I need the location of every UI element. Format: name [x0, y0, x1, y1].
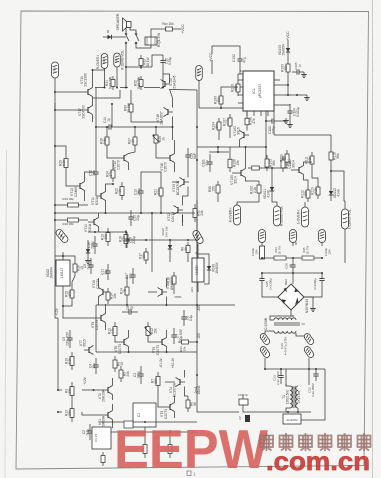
svg-text:220µ: 220µ — [132, 236, 136, 244]
wire x55 gnd run — [55, 262, 58, 318]
wire y95 net — [280, 94, 307, 96]
label VD22 1N4004 — [46, 267, 54, 279]
transistor VT16 C2073 — [160, 154, 175, 172]
wire x96 down — [95, 88, 97, 167]
svg-text:1k: 1k — [118, 189, 122, 193]
svg-text:1k: 1k — [283, 156, 287, 160]
wire to bridge — [262, 273, 322, 297]
wire VT9 — [63, 304, 106, 330]
capacitor C13 100u — [134, 184, 144, 200]
svg-text:6.8k: 6.8k — [68, 358, 72, 365]
svg-text:VPR1: VPR1 — [174, 295, 182, 299]
svg-text:GND: GND — [53, 67, 57, 73]
svg-text:EEPW: EEPW — [114, 418, 268, 478]
resistor R106 15k — [228, 147, 240, 172]
wire L pills — [305, 201, 345, 263]
wire y305 bus — [96, 304, 235, 306]
svg-text:2SA1945: 2SA1945 — [173, 75, 177, 88]
svg-text:22p: 22p — [136, 215, 140, 221]
svg-text:150: 150 — [304, 191, 308, 197]
transistor VT100 9014 — [230, 169, 246, 185]
bus y258 — [261, 257, 323, 259]
svg-text:24k: 24k — [126, 371, 130, 377]
box bottom connector — [133, 403, 156, 427]
ic pins bottom — [246, 111, 268, 120]
svg-text:2.2k: 2.2k — [253, 187, 257, 194]
wire R23/R20 — [54, 204, 88, 221]
transistor VT12 C2073 — [167, 206, 183, 223]
svg-text:56p: 56p — [92, 170, 96, 176]
label SPEAKER — [116, 13, 120, 30]
svg-text:2SK30A: 2SK30A — [102, 415, 106, 428]
svg-text:75: 75 — [123, 289, 127, 293]
svg-text:LM317: LM317 — [60, 268, 64, 278]
wire bus y213 — [54, 212, 195, 214]
svg-text:9015: 9015 — [83, 339, 87, 347]
svg-text:4.7k: 4.7k — [111, 328, 115, 335]
resistor R34 2k7W — [274, 246, 286, 260]
wire C14 row — [96, 117, 174, 141]
capacitor C9 0.1u — [83, 258, 94, 274]
label Rsv 20k — [162, 22, 174, 26]
ground g4 — [310, 306, 316, 312]
resistor R100 10k — [214, 92, 224, 108]
svg-text:2.2n 250V: 2.2n 250V — [311, 383, 315, 397]
wire ac col — [264, 358, 325, 420]
svg-text:R-OVER-I: R-OVER-I — [229, 208, 233, 223]
svg-text:56k: 56k — [336, 153, 340, 159]
potentiometer R12 10k — [145, 322, 158, 340]
ground P2 gnd — [293, 242, 296, 246]
resistor R23 39k — [62, 197, 84, 207]
capacitor C26b 3300u — [313, 273, 325, 290]
svg-text:100: 100 — [170, 277, 174, 283]
resistor R13 4.7k — [108, 322, 118, 340]
wire VT14/16 — [107, 140, 175, 172]
resistor R103 10k — [281, 60, 291, 76]
svg-text:2×13.5m: 2×13.5m — [297, 390, 301, 403]
connector ac2 — [259, 345, 271, 358]
diode VD21 — [85, 244, 91, 264]
label +12V left — [55, 307, 59, 316]
plug AC220V — [283, 414, 301, 424]
wire x330 right — [0, 0, 1, 1]
wire VT10 — [88, 213, 99, 232]
wire switch-row — [125, 44, 152, 88]
resistor R3 20k — [65, 382, 75, 400]
connector ac3 — [0, 0, 1, 1]
svg-text:1µ: 1µ — [130, 306, 134, 310]
svg-text:GND: GND — [197, 70, 201, 76]
wire det left — [197, 146, 277, 206]
capacitor C6 0.1u — [181, 310, 193, 326]
svg-text:0.33µ: 0.33µ — [168, 57, 172, 65]
wire mid cluster — [113, 160, 188, 222]
transistor VT20 2SA1945 — [161, 75, 177, 88]
wire left rail power — [197, 200, 239, 412]
watermark EEPW — [114, 418, 268, 478]
svg-text:0.1µ: 0.1µ — [86, 429, 90, 436]
resistor R31 — [105, 76, 115, 90]
svg-text:56k: 56k — [272, 160, 276, 166]
svg-text:C2073: C2073 — [164, 162, 168, 172]
wire VT11 — [96, 180, 114, 213]
connector ac6 — [303, 345, 315, 358]
capacitor C7 220u — [171, 328, 183, 344]
svg-text:100µ: 100µ — [137, 371, 141, 379]
wire x152 down — [151, 212, 153, 272]
label 2x13.5m — [297, 390, 301, 403]
capacitor C11 — [101, 264, 111, 280]
transformer T1 — [290, 386, 298, 408]
capacitor C10 22p — [128, 210, 140, 226]
capacitor C29 68P — [185, 148, 197, 164]
transistor VT7 9015 — [79, 339, 94, 354]
transistor VT18 2SA1837 — [156, 108, 173, 125]
svg-text:100: 100 — [68, 291, 72, 297]
bus y240 — [126, 239, 198, 241]
svg-text:C2073: C2073 — [156, 345, 160, 355]
svg-text:2.2k: 2.2k — [314, 188, 318, 195]
wire y352 bus — [96, 351, 197, 353]
svg-text:20k: 20k — [68, 410, 72, 416]
resistor R112 150 — [301, 186, 311, 202]
svg-text:BC3570A: BC3570A — [173, 382, 177, 397]
page edge right — [372, 0, 374, 478]
jfet VT1 2SK30A — [98, 411, 113, 429]
label +VCC right — [286, 31, 290, 41]
svg-text:1k: 1k — [131, 139, 135, 143]
svg-text:2SC1380: 2SC1380 — [84, 73, 88, 87]
wire IC right to R116 — [274, 111, 331, 148]
svg-text:0.1µ: 0.1µ — [87, 263, 91, 270]
svg-text:1k: 1k — [184, 247, 188, 251]
zener VD20 — [161, 226, 172, 254]
svg-text:C3469: C3469 — [74, 187, 78, 197]
wire bridge — [291, 297, 313, 316]
svg-text:56: 56 — [193, 402, 197, 406]
transistor VT6 C2073 — [114, 338, 129, 355]
resistor R108 47k — [245, 115, 256, 128]
capacitor C5 220u — [62, 330, 73, 348]
label C26 4x047u — [280, 337, 287, 356]
resistor R14 10k — [106, 288, 117, 304]
svg-text:SPEAKER: SPEAKER — [116, 13, 120, 30]
wire from GND down — [54, 78, 56, 111]
svg-text:4.7k: 4.7k — [226, 119, 230, 126]
connector P2 — [290, 230, 297, 243]
wire bottom ac — [243, 384, 311, 413]
svg-text:4148: 4148 — [267, 190, 271, 198]
ic pins left — [238, 70, 243, 108]
svg-text:R-ZERO-VOL: R-ZERO-VOL — [121, 50, 125, 70]
svg-text:+VCC: +VCC — [286, 31, 290, 41]
svg-text:27k: 27k — [109, 171, 113, 177]
diode D-sp — [103, 35, 116, 39]
resistor R2a — [101, 452, 105, 466]
connector ac1 — [259, 332, 271, 345]
svg-text:+VCC: +VCC — [209, 52, 213, 62]
resistor R102 2.2k — [250, 181, 262, 197]
capacitor C23 — [273, 369, 284, 385]
resistor R2b — [143, 427, 147, 458]
wire C15 — [152, 55, 164, 89]
diode VD101 4148 — [263, 181, 274, 199]
resistor R25 — [59, 154, 69, 172]
svg-text:10k: 10k — [182, 346, 186, 351]
wires speaker to switches — [126, 28, 136, 34]
svg-text:µPC3237: µPC3237 — [258, 84, 262, 98]
resistor R7 56k — [151, 372, 161, 390]
transistor VT13 C3469 — [70, 182, 85, 198]
resistor R105 56k — [265, 155, 292, 172]
svg-text:R-ZERO-VOL: R-ZERO-VOL — [280, 206, 284, 226]
resistor R101h — [248, 166, 288, 170]
label +61.4V — [171, 357, 175, 368]
svg-text:1µ: 1µ — [297, 64, 301, 68]
capacitor C17 47u — [125, 268, 136, 284]
svg-text:20k: 20k — [68, 388, 72, 394]
wire y90 top — [170, 89, 198, 92]
wire right top — [274, 40, 289, 95]
resistor R110 56k — [231, 80, 241, 96]
svg-text:C1: C1 — [137, 413, 141, 417]
svg-text:24k: 24k — [157, 189, 161, 195]
svg-text:R23 39k: R23 39k — [62, 197, 74, 201]
resistor R15 100 — [65, 286, 75, 302]
svg-text:10k: 10k — [217, 97, 221, 103]
wire VT5/VT6 — [115, 330, 167, 352]
resistor R99 150 — [208, 181, 220, 197]
svg-text:2SK30A: 2SK30A — [102, 389, 106, 402]
wire T2 — [265, 316, 309, 336]
svg-text:56k: 56k — [234, 85, 238, 91]
resistor R17 10k — [139, 248, 149, 264]
svg-text:10 1W: 10 1W — [146, 57, 150, 66]
svg-text:+12V: +12V — [55, 307, 59, 316]
component CZ — [238, 415, 250, 422]
resistor R16 10 — [73, 260, 84, 276]
capacitor C25 3300u — [259, 273, 272, 290]
svg-text:2k 7W: 2k 7W — [305, 246, 309, 254]
svg-text:K30A: K30A — [95, 196, 99, 205]
svg-text:+VCC: +VCC — [181, 24, 185, 34]
transistor VT17 2SC4793 — [78, 105, 93, 119]
diode VD103 1N4004 — [278, 42, 290, 58]
transistor VT103 9015 — [233, 126, 249, 140]
transistor VT8 A940 — [158, 282, 174, 297]
resistor R8 10 — [113, 356, 124, 372]
ground g1 — [301, 72, 307, 78]
svg-text:2k 7W: 2k 7W — [277, 246, 281, 254]
svg-text:R-OVER-I: R-OVER-I — [96, 55, 100, 69]
wire under-eepw — [99, 421, 197, 433]
svg-text:150: 150 — [212, 186, 216, 192]
resistor R32 — [134, 76, 144, 90]
transistor VT4 BC3570A — [169, 378, 185, 398]
wire GND mid — [199, 60, 212, 108]
svg-text:1k: 1k — [162, 137, 166, 141]
svg-text:10µ: 10µ — [92, 363, 96, 369]
svg-text:10k: 10k — [113, 293, 117, 299]
svg-text:10k: 10k — [284, 65, 288, 71]
svg-text:2.2n 250V: 2.2n 250V — [276, 371, 280, 385]
svg-text:RZ: RZ — [115, 58, 119, 62]
svg-text:4148: 4148 — [337, 189, 341, 197]
svg-text:180: 180 — [197, 333, 201, 339]
transistor VT102 9014 — [288, 159, 304, 175]
ic pins right — [274, 80, 280, 105]
connector L-OVER-I — [297, 207, 309, 227]
svg-text:47k: 47k — [252, 118, 256, 124]
wire det pills — [0, 0, 1, 1]
wire LM337 stubs — [0, 0, 1, 1]
svg-text:-61.4V: -61.4V — [159, 357, 163, 368]
transistor VT15 BC3570B — [172, 178, 189, 196]
svg-text:220µ 63V: 220µ 63V — [66, 331, 70, 346]
jfet VT2 2SK30A — [98, 386, 113, 403]
svg-text:9015: 9015 — [237, 127, 241, 135]
svg-text:+61.4V: +61.4V — [171, 357, 175, 368]
svg-text:10µ: 10µ — [104, 269, 108, 275]
fuse FU1 — [238, 393, 248, 405]
label O-320W — [264, 317, 268, 330]
svg-text:BR2: BR2 — [284, 279, 288, 285]
capacitor C100 220u — [267, 118, 289, 134]
svg-text:+12V: +12V — [83, 376, 87, 385]
svg-text:0.022µ: 0.022µ — [296, 107, 300, 117]
wire fuse cluster — [0, 0, 1, 1]
label T1 — [282, 390, 290, 405]
label 2mA — [194, 386, 198, 394]
svg-text:C2073: C2073 — [118, 344, 122, 354]
bridge BR2 — [278, 279, 304, 310]
capacitor C105 1u — [292, 62, 304, 74]
svg-text:C2073: C2073 — [117, 160, 121, 170]
resistor Rsv — [162, 27, 176, 31]
svg-text:56k: 56k — [215, 123, 219, 129]
resistor R32b 24k — [193, 204, 204, 222]
svg-text:Rsv 20k: Rsv 20k — [162, 22, 174, 26]
label -61.4V — [159, 357, 163, 368]
resistor R22 1k — [115, 182, 125, 200]
wire VD21 — [87, 240, 89, 244]
svg-text:0.33 7W: 0.33 7W — [109, 76, 113, 89]
resistor R9 24k — [119, 366, 130, 382]
capacitor C16 220u — [87, 236, 98, 254]
label N25YB40 — [305, 299, 309, 313]
resistor R2c — [168, 430, 172, 458]
svg-text:33 1W: 33 1W — [127, 102, 131, 112]
speaker SP — [123, 18, 132, 31]
label 180 — [197, 333, 201, 339]
wire base row y84 — [95, 87, 160, 89]
connector GND top-left — [52, 62, 59, 78]
diode VD30 1N4004 — [207, 260, 219, 276]
capacitor C2 0.1u — [82, 424, 93, 440]
caption fig1 — [187, 471, 196, 477]
wire P3 stub — [321, 243, 323, 247]
label VPR1 — [174, 295, 182, 299]
svg-text:1µ: 1µ — [107, 118, 111, 122]
resistor R36 100 — [167, 272, 177, 288]
wire LM317 top — [55, 252, 75, 260]
wire P1 fuse — [261, 243, 263, 247]
wire VT17 — [55, 97, 93, 123]
wire VT8 stubs — [99, 276, 167, 305]
connector P1 — [259, 230, 266, 243]
resistor R6 1k — [181, 242, 191, 256]
resistor R116 56k — [329, 148, 340, 164]
resistor R30 — [124, 100, 134, 116]
wire VT19 — [55, 69, 105, 92]
capacitor C18 220u — [124, 232, 136, 248]
svg-text:130(1.5m): 130(1.5m) — [286, 390, 290, 405]
svg-text:68P: 68P — [193, 152, 197, 159]
svg-text:24k: 24k — [200, 210, 204, 216]
transistor VT14 C2073 — [113, 154, 129, 170]
connector GND mid — [196, 66, 203, 81]
transistor VT9 C2073 — [91, 314, 106, 331]
svg-text:2×3300µ: 2×3300µ — [313, 278, 317, 290]
svg-text:C102: C102 — [232, 54, 236, 62]
svg-text:N25YB40: N25YB40 — [305, 299, 309, 313]
transistor VT19 2SC1380 — [80, 73, 93, 96]
svg-text:9014: 9014 — [292, 160, 296, 168]
label T2 — [301, 322, 305, 326]
capacitor C104 — [287, 104, 300, 120]
wire y232 — [88, 231, 127, 233]
wire C104 — [280, 104, 290, 122]
svg-text:.com.cn: .com.cn — [266, 446, 370, 476]
svg-text:O-320W: O-320W — [264, 317, 268, 330]
label -63V — [197, 304, 201, 312]
svg-text:RLD: RLD — [102, 58, 106, 63]
svg-text:1N4004: 1N4004 — [50, 267, 54, 279]
capacitor C102 47u — [232, 52, 247, 68]
svg-text:K30A: K30A — [88, 223, 92, 232]
wire det right — [291, 162, 345, 201]
svg-text:56k: 56k — [154, 378, 158, 384]
label 26mA — [197, 385, 201, 394]
switch S1a — [125, 33, 129, 44]
connector R-ZERO-VOL — [114, 50, 125, 70]
wire VT20 up — [163, 74, 170, 83]
svg-text:6.8k: 6.8k — [62, 160, 66, 167]
label +12V b — [83, 376, 87, 385]
transformer T2 — [274, 318, 300, 333]
wire IC left net — [199, 46, 240, 109]
wire VT15 — [172, 164, 188, 196]
svg-text:24V 1W: 24V 1W — [164, 226, 168, 237]
resistor R14b 75 — [120, 283, 130, 299]
svg-text:10k: 10k — [142, 253, 146, 259]
resistor R19 10k — [101, 228, 111, 246]
resistor R24 27k — [106, 166, 116, 182]
wire LM337 net — [190, 244, 209, 293]
resistor R27 — [128, 133, 138, 149]
svg-text:0.5k: 0.5k — [103, 138, 107, 145]
fuse F150 — [251, 246, 265, 259]
fuse F160 — [322, 246, 331, 256]
capacitor C8 1u — [122, 306, 138, 315]
capacitor C4 10u — [89, 358, 99, 374]
capacitor C3 100u — [133, 366, 144, 384]
jfet VT11 K30A — [91, 192, 106, 206]
connector R-OVER-I b — [229, 205, 241, 225]
svg-text:L-OVER-I: L-OVER-I — [297, 210, 301, 224]
wire input stage — [57, 318, 113, 428]
